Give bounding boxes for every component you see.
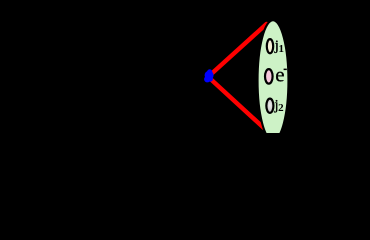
svg-text:1: 1	[279, 43, 285, 55]
final-state blob (green ellipse)	[258, 20, 289, 141]
jet 1 icon (cream ellipse)	[267, 39, 273, 53]
svg-text:e: e	[275, 62, 284, 86]
jet 2 icon (gray ellipse)	[266, 99, 273, 113]
electron icon (pink ellipse)	[265, 69, 273, 84]
svg-text:2: 2	[278, 102, 284, 114]
wire upper red track from vertex to blob	[212, 24, 267, 74]
node interaction vertex (blue blob)	[204, 69, 214, 82]
wire lower red track from vertex to blob	[209, 78, 264, 129]
